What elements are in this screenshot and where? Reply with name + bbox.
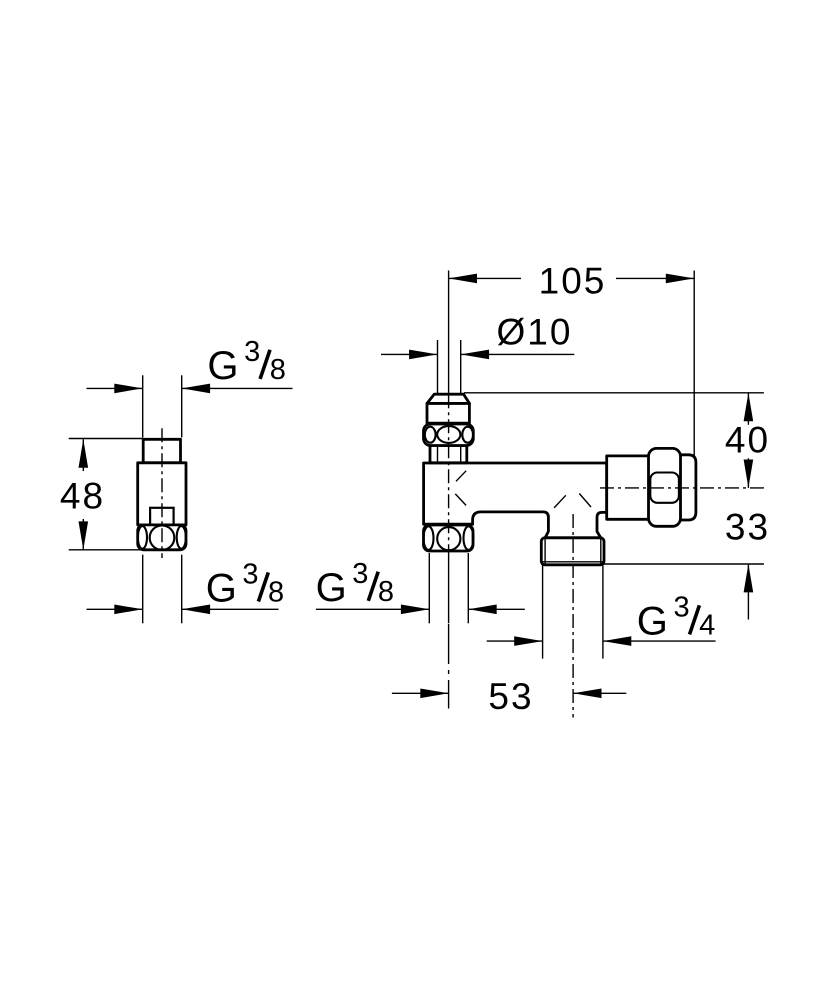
dimension 105 line right bbox=[616, 277, 694, 279]
dimension top G38 arrow left bbox=[114, 384, 142, 394]
bottom nut right facet ellipse bbox=[464, 526, 474, 550]
collar thread relief line bbox=[543, 561, 604, 563]
label top G38 bbox=[207, 336, 285, 388]
extension line top G38 right bbox=[181, 375, 183, 437]
top inlet union nut bbox=[424, 424, 474, 446]
svg-text:53: 53 bbox=[488, 676, 533, 717]
svg-text:3: 3 bbox=[674, 592, 690, 624]
side port union nut bbox=[649, 448, 681, 526]
centerline left inlet lower bbox=[448, 553, 450, 623]
dimension G34 line right bbox=[603, 640, 716, 642]
extension line bottom-left G38 right bbox=[181, 555, 183, 624]
svg-text:G: G bbox=[316, 566, 347, 610]
bottom outlet collar G3/4 bbox=[541, 538, 604, 565]
dimension D10 arrow right bbox=[461, 350, 489, 360]
dimension middle G38 arrow right bbox=[468, 605, 496, 615]
side port body bbox=[607, 456, 649, 519]
top nut left facet ellipse bbox=[425, 427, 436, 443]
extension line middle G38 right bbox=[467, 553, 469, 623]
side view centerline bbox=[161, 428, 163, 558]
dimension 33 bottom reference line bbox=[603, 563, 764, 565]
svg-text:Ø10: Ø10 bbox=[497, 312, 573, 353]
extension line G34 right bbox=[602, 565, 604, 659]
dimension 48 upper arrow bbox=[79, 439, 89, 467]
centerline bottom outlet bbox=[572, 514, 574, 718]
extension line bottom-left G38 left bbox=[142, 555, 144, 624]
dimension 53 line left bbox=[392, 692, 449, 694]
valve body (main front view) bbox=[424, 463, 607, 538]
seat mark bottom outlet left dash bbox=[554, 495, 566, 508]
seat mark left inlet lower dash bbox=[455, 494, 466, 506]
dimension 40 lower arrow bbox=[744, 460, 754, 488]
top nut right facet ellipse bbox=[462, 427, 473, 443]
dimension bottom-left G38 arrow right bbox=[182, 605, 210, 615]
dimension top G38 line right bbox=[182, 387, 293, 389]
neck pipe line left bbox=[437, 446, 439, 463]
centerline left inlet through part bbox=[448, 394, 450, 553]
label middle G38 bbox=[316, 558, 394, 610]
extension line middle G38 left bbox=[428, 553, 430, 623]
bottom nut of left inlet bbox=[424, 525, 474, 551]
side view nut right facet ellipse bbox=[177, 526, 186, 549]
side view thread square bbox=[143, 439, 180, 463]
dimension 33 lower arrow bbox=[744, 564, 754, 592]
svg-text:33: 33 bbox=[725, 507, 770, 548]
seat mark bottom outlet right dash bbox=[579, 494, 591, 508]
svg-text:40: 40 bbox=[725, 420, 770, 461]
dimension top G38 arrow right bbox=[182, 384, 210, 394]
centerline left inlet upper (ext for 105) bbox=[448, 271, 450, 395]
neck pipe line right bbox=[460, 446, 462, 463]
dimension D10 arrow left bbox=[409, 350, 437, 360]
side view nut bbox=[138, 525, 186, 550]
dimension 40 upper arrow bbox=[744, 393, 754, 421]
svg-text:3: 3 bbox=[244, 336, 260, 368]
dimension 53 arrow left bbox=[420, 689, 448, 699]
collar thread line left bbox=[544, 539, 546, 565]
side view nut center facet circle bbox=[150, 525, 175, 550]
dimension 53 arrow right bbox=[573, 689, 601, 699]
svg-text:8: 8 bbox=[270, 354, 286, 386]
extension line top G38 left bbox=[142, 375, 144, 437]
dimension 105 arrow left bbox=[449, 274, 477, 284]
dimension D10 line right bbox=[461, 353, 575, 355]
extension line G34 left bbox=[542, 565, 544, 659]
bottom nut center facet circle bbox=[437, 527, 460, 550]
dimension G34 line left bbox=[487, 640, 543, 642]
svg-text:3: 3 bbox=[352, 558, 368, 590]
dimension middle G38 line left bbox=[316, 608, 429, 610]
dimension bottom-left G38 line left bbox=[87, 608, 143, 610]
bottom nut left facet ellipse bbox=[424, 526, 434, 550]
dimension top G38 line left bbox=[87, 387, 143, 389]
collar thread line right bbox=[600, 539, 602, 565]
dimension 48 bottom reference line bbox=[69, 549, 144, 551]
centerline left inlet bottom bbox=[448, 624, 450, 709]
side view body bbox=[138, 463, 186, 525]
top nut center facet ellipse bbox=[437, 426, 460, 443]
inlet pipe line right bbox=[460, 340, 462, 394]
svg-text:8: 8 bbox=[268, 577, 284, 609]
svg-text:G: G bbox=[206, 567, 237, 611]
side view shoulder notch bbox=[150, 508, 174, 525]
svg-text:G: G bbox=[207, 344, 238, 388]
dimension bottom-left G38 line right bbox=[182, 608, 279, 610]
seat mark left inlet upper dash bbox=[456, 471, 466, 482]
extension line 105 right bbox=[693, 271, 695, 458]
dimension 40 top reference line bbox=[464, 392, 764, 394]
dimension middle G38 arrow left bbox=[401, 605, 429, 615]
svg-text:G: G bbox=[637, 599, 668, 643]
svg-text:8: 8 bbox=[378, 576, 394, 608]
side port end cap bbox=[679, 455, 696, 520]
dimension G34 arrow left bbox=[514, 636, 542, 646]
dimension 105 arrow right bbox=[666, 274, 694, 284]
svg-text:105: 105 bbox=[539, 261, 607, 302]
side port nut hex flat bbox=[650, 473, 679, 503]
top inlet bevel bbox=[427, 394, 469, 403]
svg-text:4: 4 bbox=[699, 609, 715, 641]
svg-text:48: 48 bbox=[60, 475, 105, 516]
dimension 48 top reference line bbox=[69, 438, 144, 440]
dimension D10 line left bbox=[381, 353, 438, 355]
label G34 bbox=[637, 592, 715, 644]
dimension middle G38 line right bbox=[468, 608, 525, 610]
label bottom-left G38 bbox=[206, 559, 284, 611]
svg-text:3: 3 bbox=[242, 559, 258, 591]
dimension 53 line right bbox=[573, 692, 626, 694]
top inlet neck bbox=[430, 446, 467, 463]
centerline side port bbox=[600, 487, 764, 489]
inlet pipe line left bbox=[437, 340, 439, 394]
dimension 105 line left bbox=[449, 277, 521, 279]
dimension G34 arrow right bbox=[603, 636, 631, 646]
dimension bottom-left G38 arrow left bbox=[114, 605, 142, 615]
top inlet upper body bbox=[427, 403, 469, 423]
side view nut left facet ellipse bbox=[138, 526, 147, 549]
dimension 48 lower arrow bbox=[79, 521, 89, 549]
